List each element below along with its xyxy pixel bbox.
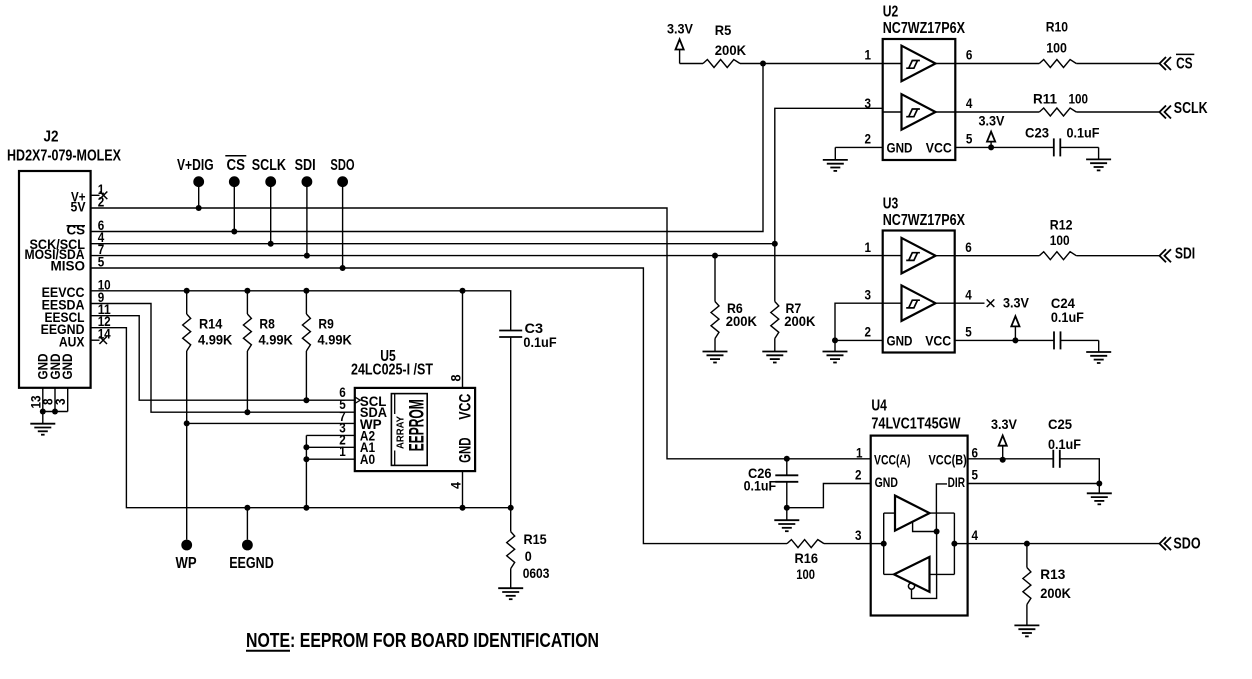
svg-text:1: 1	[865, 47, 872, 63]
resistor R7 200K pulldown	[774, 244, 776, 302]
resistor R10 100	[1039, 60, 1076, 68]
wire U2 pin 2 to ground	[835, 146, 882, 148]
wire U3 pin 3 to pin 2 ground	[835, 303, 883, 340]
svg-text:VCC(B): VCC(B)	[929, 452, 967, 468]
svg-text:MISO: MISO	[51, 258, 86, 274]
J2 pin 8 stub	[54, 388, 56, 412]
svg-text:VCC: VCC	[926, 140, 952, 156]
junction dot CS net at R5 output	[760, 61, 766, 67]
U4 internal left vertical	[883, 513, 885, 574]
svg-text:SDO: SDO	[1173, 535, 1200, 552]
ground at U3 pin 2	[823, 352, 848, 363]
ground below J2	[42, 412, 44, 424]
svg-text:2: 2	[865, 131, 872, 147]
wire R5 to U2 pin 1	[740, 63, 883, 65]
svg-text:0.1uF: 0.1uF	[523, 334, 557, 350]
resistor R5 200K	[703, 60, 740, 68]
svg-text:NC7WZ17P6X: NC7WZ17P6X	[883, 20, 966, 37]
svg-text:NOTE: EEPROM FOR BOARD IDENTIF: NOTE: EEPROM FOR BOARD IDENTIFICATION	[246, 630, 599, 652]
junction dot SDI test point	[304, 253, 310, 259]
svg-text:R13: R13	[1040, 566, 1065, 582]
U3 buffer B triangle	[902, 285, 936, 321]
svg-text:0.1uF: 0.1uF	[1051, 309, 1084, 325]
U3 buffer A triangle	[902, 238, 936, 274]
junction dot SDO test point	[340, 265, 346, 271]
svg-text:U4: U4	[871, 398, 887, 415]
svg-text:R10: R10	[1046, 19, 1068, 35]
wire 3.3V to R5	[680, 63, 703, 65]
svg-text:V+DIG: V+DIG	[177, 157, 214, 174]
wire U2 pin 4 to R11	[955, 111, 1039, 113]
svg-text:SCLK: SCLK	[1174, 100, 1208, 117]
svg-text:2: 2	[98, 194, 105, 210]
U4 internal enable wire upper	[913, 522, 937, 532]
wire EEGND net: J2 pin 12 to GND rail	[91, 328, 511, 508]
J2 pin 13 stub	[42, 388, 44, 412]
test point V+DIG	[193, 176, 204, 187]
svg-text:8: 8	[448, 374, 464, 381]
wire U2 pin 5 VCC	[955, 146, 1054, 148]
U2 buffer B triangle	[902, 94, 936, 130]
wire U4 pin 5 DIR to ground	[968, 483, 1100, 485]
buffer U2 box	[883, 39, 956, 160]
svg-text:VCC: VCC	[925, 333, 951, 349]
svg-text:6: 6	[966, 47, 973, 63]
svg-text:100: 100	[1050, 232, 1070, 248]
resistor R16 100	[787, 540, 824, 548]
svg-text:R12: R12	[1050, 217, 1073, 233]
wire joining J2 ground pins	[43, 411, 68, 413]
svg-text:24LC025-I /ST: 24LC025-I /ST	[351, 362, 433, 379]
svg-text:R16: R16	[795, 550, 819, 566]
svg-text:EEGND: EEGND	[229, 555, 274, 572]
svg-text:200K: 200K	[1040, 585, 1071, 601]
svg-text:4.99K: 4.99K	[198, 331, 232, 347]
svg-text:VCC(A): VCC(A)	[874, 452, 911, 468]
svg-text:C25: C25	[1048, 416, 1072, 432]
svg-text:200K: 200K	[784, 313, 815, 329]
U4 pin 4 internal stub	[954, 543, 967, 545]
svg-text:74LVC1T45GW: 74LVC1T45GW	[871, 415, 960, 432]
svg-text:3.3V: 3.3V	[979, 113, 1006, 129]
J2 pin 14 stub	[91, 339, 100, 341]
svg-text:100: 100	[1069, 91, 1089, 107]
junction dot SCLK test point	[268, 241, 274, 247]
svg-text:4.99K: 4.99K	[259, 331, 293, 347]
power 3.3V at R5	[676, 39, 684, 63]
svg-text:CS: CS	[227, 157, 246, 174]
wire EEVCC net: J2 pin 10 to C3	[91, 291, 511, 331]
svg-text:R11: R11	[1033, 91, 1057, 107]
chevron CS output	[1160, 57, 1172, 70]
wire U2 pin 3 from SCK junction	[775, 108, 883, 243]
U2 buffer A triangle	[902, 46, 936, 81]
U4 internal enable bubble	[908, 583, 914, 589]
svg-text:0603: 0603	[523, 565, 550, 581]
U5 SCL clock arrow	[355, 397, 360, 404]
U4 internal buffer A-to-B triangle	[895, 496, 930, 531]
svg-text:R15: R15	[524, 531, 547, 547]
svg-text:GND: GND	[887, 140, 913, 156]
test point CS (overline)	[229, 176, 240, 187]
test point SDI	[302, 176, 313, 187]
svg-text:4.99K: 4.99K	[318, 331, 352, 347]
wire A2/A1/A0 tie to ground rail	[306, 434, 354, 436]
test point EEGND	[246, 508, 248, 540]
wire U2 pin 6 to R10	[955, 63, 1039, 65]
wire EESCL net: J2 pin 11 to U5 SCL	[91, 316, 355, 401]
svg-text:6: 6	[972, 444, 979, 460]
ground at C24	[1086, 352, 1111, 363]
svg-text:0: 0	[525, 548, 532, 564]
svg-text:GND: GND	[457, 437, 475, 463]
wire U3 pin 6 to R12	[955, 255, 1040, 257]
wire MOSI net: J2 pin 7 to U3 pin 1	[91, 255, 883, 257]
svg-text:4: 4	[972, 527, 979, 543]
svg-text:2: 2	[865, 324, 872, 340]
wire U4 pin 2 GND to C26 ground	[787, 484, 871, 508]
J2 pin 1 stub	[91, 194, 100, 196]
svg-text:J2: J2	[44, 129, 59, 146]
svg-text:100: 100	[796, 566, 815, 582]
U5 GND pin 4	[462, 471, 464, 508]
no-connect X on J2 pin 14	[99, 336, 107, 344]
test point WP	[181, 540, 192, 551]
U4 pin 3 internal stub	[871, 543, 884, 545]
wire U4 pin 4 to SDO output	[968, 543, 1160, 545]
svg-text:SDI: SDI	[295, 157, 316, 174]
svg-text:CS: CS	[67, 221, 86, 237]
U4 internal buffer B-to-A triangle	[894, 557, 930, 592]
svg-text:3.3V: 3.3V	[991, 416, 1018, 432]
svg-text:R9: R9	[318, 316, 334, 332]
svg-text:U2: U2	[883, 4, 899, 21]
svg-text:200K: 200K	[715, 42, 746, 58]
wire EESDA net: J2 pin 9 to U5 SDA	[91, 304, 355, 413]
svg-text:0.1uF: 0.1uF	[744, 478, 777, 494]
svg-text:1: 1	[339, 443, 346, 459]
svg-text:4: 4	[965, 286, 972, 302]
svg-text:3: 3	[855, 527, 862, 543]
svg-text:NC7WZ17P6X: NC7WZ17P6X	[883, 212, 966, 229]
U5 VCC pin 8	[462, 291, 464, 388]
svg-text:6: 6	[965, 239, 972, 255]
ground at C25/DIR	[1087, 493, 1112, 504]
chevron SDI output	[1160, 249, 1172, 262]
wire MISO net: J2 pin 5 down and over to R16	[91, 268, 787, 544]
svg-text:5: 5	[972, 467, 979, 483]
svg-text:2: 2	[855, 467, 862, 483]
capacitor C3 0.1uF	[499, 331, 522, 338]
resistor R11 100	[1039, 108, 1076, 116]
test point SCLK	[265, 176, 276, 187]
wire CS net: J2 pin 6 right then up to U2 pin 1 wire	[91, 64, 763, 232]
svg-text:3.3V: 3.3V	[667, 21, 694, 37]
no-connect X on J2 pin 1	[100, 192, 108, 200]
svg-text:R5: R5	[715, 22, 732, 38]
svg-text:EEPROM: EEPROM	[406, 399, 429, 451]
svg-text:SDI: SDI	[1175, 246, 1195, 263]
wire R11 to SCLK output	[1076, 111, 1159, 113]
svg-text:3: 3	[865, 286, 872, 302]
resistor R14 4.99K	[186, 291, 188, 314]
svg-text:5: 5	[98, 254, 105, 270]
svg-text:AUX: AUX	[59, 333, 85, 349]
resistor R8 4.99K	[246, 291, 248, 314]
svg-text:200K: 200K	[726, 313, 757, 329]
resistor R6 200K pulldown	[714, 256, 716, 302]
wire 5V net: J2 pin 2 to U4 VCC(A)	[91, 208, 871, 459]
svg-text:C23: C23	[1025, 125, 1049, 141]
svg-text:5: 5	[966, 131, 973, 147]
svg-text:100: 100	[1046, 40, 1067, 56]
svg-text:4: 4	[448, 482, 464, 489]
J2 pin 3 stub	[67, 388, 69, 412]
svg-text:1: 1	[856, 444, 863, 460]
U5 inner array symbol	[391, 394, 427, 466]
ground at U2 pin 2	[823, 160, 848, 171]
svg-text:VCC: VCC	[457, 394, 475, 420]
svg-text:3: 3	[52, 398, 68, 405]
wire U3 pin 2	[835, 339, 883, 341]
ground at C23	[1086, 159, 1111, 170]
U4 internal DIR wire	[936, 484, 947, 532]
junction dot CS test point	[231, 229, 237, 235]
wire SCK net: J2 pin 4 to junction below U2 pin 3	[91, 243, 775, 245]
resistor R13 200K pulldown	[1026, 544, 1028, 568]
svg-text:14: 14	[98, 326, 111, 342]
wire WP row to U5	[187, 422, 355, 424]
svg-text:5: 5	[965, 324, 972, 340]
svg-text:5V: 5V	[71, 199, 87, 215]
wire R12 to SDI output	[1076, 255, 1159, 257]
svg-text:R8: R8	[259, 316, 275, 332]
level translator U4 box	[871, 436, 968, 616]
connector J2 box	[19, 171, 91, 388]
svg-text:CS: CS	[1176, 55, 1193, 72]
chevron SDO output	[1160, 537, 1172, 550]
svg-text:DIR: DIR	[948, 474, 965, 490]
power 3.3V at U2 pin 5	[987, 132, 995, 148]
wire U4 pin 6 to C25	[968, 458, 1054, 460]
svg-text:GND: GND	[59, 354, 75, 380]
test point SDO	[337, 176, 348, 187]
junction dot V+DIG on 5V row	[196, 205, 202, 211]
wire R10 to CS output	[1076, 63, 1159, 65]
U4 internal wires upper	[884, 512, 895, 514]
svg-text:3.3V: 3.3V	[1003, 295, 1030, 311]
svg-text:R14: R14	[199, 316, 222, 332]
U4 internal right vertical	[953, 513, 955, 574]
resistor R15 0 0603	[510, 508, 512, 532]
capacitor C24 0.1uF	[1054, 331, 1061, 349]
svg-text:1: 1	[865, 239, 872, 255]
U3 pin 4 no-connect stub	[955, 302, 985, 304]
svg-text:GND: GND	[887, 333, 913, 349]
svg-text:0.1uF: 0.1uF	[1048, 436, 1081, 452]
svg-text:WP: WP	[176, 555, 197, 572]
svg-text:ARRAY: ARRAY	[394, 416, 406, 449]
svg-text:SCLK: SCLK	[252, 157, 287, 174]
EEPROM U5 box	[355, 388, 475, 471]
resistor R9 4.99K	[305, 291, 307, 314]
svg-text:SDO: SDO	[330, 157, 354, 174]
capacitor C23 0.1uF	[1054, 138, 1061, 156]
svg-text:GND: GND	[875, 474, 898, 490]
chevron SCLK output	[1160, 106, 1172, 119]
capacitor C26 0.1uF	[784, 456, 790, 462]
svg-text:U3: U3	[883, 196, 899, 213]
svg-text:A0: A0	[360, 451, 375, 467]
U4 internal wires lower	[884, 573, 894, 575]
wire U3 pin 5 VCC	[955, 339, 1054, 341]
buffer U3 box	[883, 231, 955, 353]
svg-text:0.1uF: 0.1uF	[1067, 125, 1100, 141]
svg-text:HD2X7-079-MOLEX: HD2X7-079-MOLEX	[7, 148, 122, 165]
svg-text:4: 4	[966, 95, 973, 111]
resistor R12 100	[1039, 252, 1076, 260]
capacitor C25 0.1uF	[1053, 450, 1060, 468]
ground at C26	[786, 508, 788, 521]
